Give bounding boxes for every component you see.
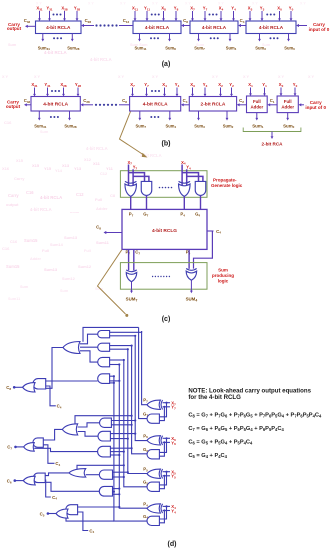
final OR gate of C5 <box>56 509 68 518</box>
box RCLA block B1 (bits 31-28) <box>31 97 80 112</box>
dots between input pairs of RCLA block B2 (bits 7-4) <box>151 90 160 92</box>
input X0 of RCLA block A4 (bits 3-0) <box>277 6 282 21</box>
svg-text:X13: X13 <box>62 163 70 168</box>
bus wire G6 (d) <box>132 346 147 454</box>
svg-text:X Y: X Y <box>278 75 285 79</box>
wire C4 between A3 and A4 <box>238 18 246 27</box>
svg-text:4-bit RCLA: 4-bit RCLA <box>90 57 112 62</box>
AND gate G4 (d) <box>147 516 159 525</box>
svg-text:X Y: X Y <box>212 75 219 79</box>
4-bit RCLA box RCLA block A2 (bits 11-8) <box>133 21 181 34</box>
bus wire P4 (d) <box>119 365 147 508</box>
svg-text:Generate logic: Generate logic <box>211 183 243 188</box>
input label X7 section (c) <box>127 160 132 166</box>
label G6 (d) <box>143 447 148 453</box>
wire C1 between FA1 and FA0 <box>267 98 277 106</box>
wire C8 into dots row (b) <box>119 98 130 105</box>
AND gate term1 of C6 cluster <box>99 470 112 479</box>
svg-text:(a): (a) <box>162 61 171 68</box>
input label Y7 section (c) <box>133 164 138 170</box>
label Y4 (d) <box>171 508 176 514</box>
svg-text:C7 = G6 + P6G5 + P6P5G4 + P6P5: C7 = G6 + P6G5 + P6P5G4 + P6P5P4C4 <box>188 426 284 432</box>
svg-text:input of 0: input of 0 <box>305 105 326 110</box>
wire C6 OR output to final AND <box>45 473 69 476</box>
wire C2 between 2-bit RCLA and FA1 <box>237 98 247 106</box>
svg-text:Sum11: Sum11 <box>8 297 20 301</box>
dots between sum outputs of RCLA block B2 (bits 7-4) <box>150 116 159 118</box>
output Sum8 of RCLA block A2 (bits 11-8) <box>165 34 176 52</box>
svg-text:X Y: X Y <box>300 2 306 6</box>
svg-text:Propagate-: Propagate- <box>213 178 237 183</box>
wires P7 G7 down to RCLG box <box>131 195 147 209</box>
svg-text:X11: X11 <box>93 161 101 166</box>
4-bit RCLA box RCLA block A1 (bits 31-28) <box>36 21 82 34</box>
svg-text:X16: X16 <box>2 166 10 171</box>
wire C8 between A2 and A3 <box>181 18 190 27</box>
svg-text:Full: Full <box>253 99 261 104</box>
OR gate of C8 cluster <box>63 342 80 354</box>
4-bit RCLA box RCLA block A4 (bits 3-0) <box>246 21 296 34</box>
C7 output label <box>7 445 23 451</box>
wires P4 G4 down to RCLG box <box>184 195 200 209</box>
svg-text:Sum: Sum <box>8 43 17 47</box>
svg-text:Sum: Sum <box>20 285 29 289</box>
svg-text:C12: C12 <box>76 192 84 197</box>
svg-text:X15: X15 <box>32 163 40 168</box>
wires X7 Y7 into P-G gates <box>129 165 149 188</box>
dots between sum outputs of RCLA block A3 (bits 7-4) <box>210 37 219 39</box>
input stub wires of C8 cluster ANDs <box>110 335 137 384</box>
svg-text:Adder: Adder <box>96 206 108 211</box>
svg-text:C8 = G7 + P7G6 + P7P6G5 + P7P6: C8 = G7 + P7G6 + P7P6G5 + P7P6P5G4 + P7P… <box>188 412 322 418</box>
svg-text:Adder: Adder <box>30 257 41 261</box>
svg-text:X Y: X Y <box>243 75 250 79</box>
wire G4 into C5 OR <box>66 517 114 521</box>
svg-text:4-bit RCLA: 4-bit RCLA <box>30 207 52 212</box>
svg-text:4-bit RCLA: 4-bit RCLA <box>86 146 108 151</box>
final OR gate of C6 <box>23 476 35 485</box>
wires P7 C7 from RCLG bottom to sum XOR <box>129 249 134 270</box>
svg-text:X Y: X Y <box>88 2 94 6</box>
C4 wire into C7 final AND <box>43 445 60 467</box>
X5 Y5 input wires (d) <box>159 471 170 489</box>
svg-text:Full: Full <box>42 248 49 253</box>
svg-text:Adder: Adder <box>281 105 294 110</box>
input label X4 section (c) <box>181 160 186 166</box>
AND gate term1 of C8 cluster <box>98 331 110 338</box>
svg-text:4-bit RCLA: 4-bit RCLA <box>145 25 170 30</box>
svg-text:Adder: Adder <box>251 105 264 110</box>
svg-text:X Y: X Y <box>118 75 125 79</box>
X4 Y4 input wires (d) <box>159 505 170 523</box>
SUM7 output arrow and label <box>126 282 138 303</box>
label Y6 (d) <box>171 440 176 446</box>
svg-text:Full: Full <box>84 249 91 253</box>
svg-text:X Y: X Y <box>252 2 258 6</box>
direct G5 wire to C6 OR <box>77 464 125 469</box>
box RCLA block B2 (bits 7-4) <box>130 97 181 112</box>
svg-text:X15: X15 <box>16 158 24 163</box>
C4 wire into C5 final AND <box>78 512 95 534</box>
OR gate of C7 cluster <box>62 424 77 435</box>
wires X4 Y4 into P-G gates <box>182 165 203 188</box>
AND gate G6 (d) <box>147 450 159 459</box>
AND gate term2 of C8 cluster <box>98 343 110 351</box>
green box Propagate-Generate logic <box>120 171 207 198</box>
svg-text:X Y: X Y <box>308 75 315 79</box>
XOR gate P4 in P-G logic <box>179 181 191 196</box>
XOR gate P4 (d) <box>147 504 163 513</box>
XOR gate P7 (d) <box>147 400 163 409</box>
input Y11 of RCLA block A2 (bits 11-8) <box>144 6 150 21</box>
output Sum0 of RCLA block A4 (bits 3-0) <box>284 34 295 52</box>
svg-text:C6 = G5 + P5G4 + P5P4C4: C6 = G5 + P5G4 + P5P4C4 <box>188 440 253 446</box>
AND gate term2 of C7 cluster <box>98 431 110 441</box>
svg-text:Sum13: Sum13 <box>64 235 78 240</box>
C6 output label <box>7 478 23 484</box>
final AND gate of C6 <box>33 473 45 483</box>
svg-text:logic: logic <box>218 279 229 284</box>
AND gate term3 of C7 cluster <box>98 446 111 457</box>
svg-text:input of 0: input of 0 <box>309 27 330 32</box>
input stub wires of C7 cluster ANDs <box>110 419 136 456</box>
C5 output label <box>40 512 56 518</box>
final AND gate of C7 <box>33 438 43 447</box>
input Y7 of RCLA block B2 (bits 7-4) <box>144 82 149 96</box>
input stub wires of C6 cluster ANDs <box>113 471 129 495</box>
AND gate G7 in P-G logic <box>141 181 152 195</box>
pin labels P7 G7 P4 G4 on RCLG top <box>129 211 201 217</box>
input X28 of RCLA block B1 (bits 31-28) <box>60 82 66 96</box>
input Y4 of RCLA block A3 (bits 7-4) <box>231 6 236 21</box>
label P5 (d) <box>143 467 148 473</box>
svg-text:4-bit RCLA: 4-bit RCLA <box>43 102 68 108</box>
input X4 of RCLA block B2 (bits 7-4) <box>162 82 167 96</box>
AND gate G7 (d) <box>147 414 159 423</box>
wire product AND3 to final C7 OR <box>34 448 97 451</box>
wires AND outputs to C7 OR <box>78 423 100 436</box>
wire P4 from RCLG bottom to sum XOR <box>188 249 190 268</box>
output Sum31 of RCLA block B1 (bits 31-28) <box>34 111 47 129</box>
output Sum2 of 2-bit RCLA block (bits 3-2) <box>223 111 234 129</box>
wire product AND2 to final C6 OR <box>35 482 99 491</box>
svg-text:(d): (d) <box>168 541 177 548</box>
svg-text:Y14: Y14 <box>55 168 63 173</box>
label P4 (d) <box>143 501 148 507</box>
NOTE heading <box>188 388 311 402</box>
svg-text:Carry: Carry <box>14 176 25 181</box>
input X2 of 2-bit RCLA block (bits 3-2) <box>218 82 223 96</box>
input Y0 of RCLA block A4 (bits 3-0) <box>289 6 294 21</box>
4-bit RCLG box <box>122 209 207 249</box>
dots between input pairs of RCLA block A3 (bits 7-4) <box>209 14 218 16</box>
final AND gate of C5 <box>66 505 78 515</box>
svg-text:for the 4-bit RCLG: for the 4-bit RCLG <box>188 394 241 401</box>
svg-text:C16: C16 <box>10 239 18 244</box>
svg-text:C12: C12 <box>100 171 108 176</box>
AND gate term4 of C8 cluster <box>98 374 110 384</box>
callout line from RCLA block B2 to section (c) <box>120 112 148 158</box>
wire C4 between B2 and 2-bit RCLA <box>181 98 189 106</box>
wire C28 into block A1 <box>81 18 94 27</box>
final AND gate of C8 <box>33 379 46 389</box>
svg-text:X Y: X Y <box>152 2 158 6</box>
Carry input of 0 row (a) <box>296 22 330 32</box>
bus wire G7 (d) <box>139 327 147 418</box>
svg-text:........: ........ <box>70 209 79 214</box>
svg-text:C16: C16 <box>2 246 10 251</box>
svg-text:Sum12: Sum12 <box>62 276 76 281</box>
input X7 of RCLA block A3 (bits 7-4) <box>190 6 195 21</box>
dots between sum outputs of RCLA block A2 (bits 11-8) <box>150 37 159 39</box>
final OR gate of C8 <box>23 383 35 392</box>
pin labels P7 C7 P4 on RCLG bottom <box>126 250 191 256</box>
label Y5 (d) <box>171 474 176 480</box>
box 2-bit RCLA block (bits 3-2) <box>189 97 236 112</box>
C4 input stub of RCLG <box>207 229 221 235</box>
svg-text:Full: Full <box>95 197 102 202</box>
bus wire G4 (d) <box>114 376 147 522</box>
input Y7 of RCLA block A3 (bits 7-4) <box>203 6 208 21</box>
AND gate term2 of C6 cluster <box>99 486 112 496</box>
C4 wire down to sum logic <box>194 231 213 269</box>
output Sum4 of RCLA block A3 (bits 7-4) <box>226 34 237 52</box>
svg-text:Sum13: Sum13 <box>44 267 58 272</box>
svg-text:X Y: X Y <box>120 2 126 6</box>
AND gate G5 (d) <box>147 482 159 491</box>
input Y2 of 2-bit RCLA block (bits 3-2) <box>229 82 234 96</box>
brace under full adders (2-bit RCA) <box>243 128 301 147</box>
svg-text:Sum: Sum <box>218 268 228 273</box>
sum XOR gate SUM7 <box>126 270 137 282</box>
input X11 of RCLA block A2 (bits 11-8) <box>132 6 138 21</box>
svg-text:2-bit RCA: 2-bit RCA <box>262 142 284 147</box>
direct G6 wire to C7 OR <box>75 415 133 425</box>
AND gate G4 in P-G logic <box>195 181 206 195</box>
svg-text:C5 = G4 + P4C4: C5 = G4 + P4C4 <box>188 453 227 459</box>
AND gate term3 of C8 cluster <box>98 357 110 366</box>
input Y31 of RCLA block B1 (bits 31-28) <box>44 82 50 96</box>
svg-text:(c): (c) <box>162 316 171 323</box>
SUM4 output arrow and label <box>186 280 198 302</box>
svg-text:4-bit RCLA: 4-bit RCLA <box>202 25 227 30</box>
label G7 (d) <box>143 412 148 418</box>
P7 top wire to AND1 (d) <box>110 331 142 332</box>
svg-text:output: output <box>6 202 19 207</box>
wire C7 OR output to final AND <box>43 429 62 440</box>
svg-text:Y13: Y13 <box>74 166 82 171</box>
label Y7 (d) <box>171 405 176 411</box>
output Sum31 of RCLA block A1 (bits 31-28) <box>38 34 51 52</box>
label Propagate-Generate logic <box>211 178 243 189</box>
svg-text:X Y: X Y <box>152 75 159 79</box>
Carry output text row (a) <box>7 22 22 31</box>
output Sum3 of RCLA block A4 (bits 3-0) <box>255 34 266 52</box>
dots between input pairs of RCLA block A2 (bits 11-8) <box>151 14 160 16</box>
dots between block A1 and A2 row (a) <box>95 24 117 26</box>
svg-text:Sum12: Sum12 <box>78 264 92 269</box>
input Y0 of Full Adder FA0 (bit 0) <box>293 82 298 96</box>
input X3 of 2-bit RCLA block (bits 3-2) <box>190 82 195 96</box>
green box Sum producing logic <box>120 263 207 290</box>
output Sum7 of RCLA block A3 (bits 7-4) <box>194 34 205 52</box>
input X7 of RCLA block B2 (bits 7-4) <box>130 82 135 96</box>
input Y28 of RCLA block B1 (bits 31-28) <box>75 82 81 96</box>
svg-text:C16: C16 <box>26 190 34 195</box>
svg-text:C16: C16 <box>4 120 12 125</box>
dots between input pairs of RCLA block A4 (bits 3-0) <box>266 14 275 16</box>
svg-text:Sum14: Sum14 <box>50 242 64 247</box>
input label Y4 section (c) <box>186 164 191 170</box>
input X0 of Full Adder FA0 (bit 0) <box>279 82 284 96</box>
input Y8 of RCLA block A2 (bits 11-8) <box>174 6 179 21</box>
X7 Y7 input wires (d) <box>159 402 170 421</box>
input Y28 of RCLA block A1 (bits 31-28) <box>74 6 80 21</box>
svg-text:C8: C8 <box>110 193 116 198</box>
dots between sum XOR gates <box>152 276 170 277</box>
svg-text:4-bit RCLG: 4-bit RCLG <box>152 228 177 234</box>
wire product AND4 to final C8 AND <box>46 380 98 382</box>
input Y31 of RCLA block A1 (bits 31-28) <box>46 6 52 21</box>
svg-text:producing: producing <box>212 273 234 278</box>
wire C12 into dots row (a) <box>119 18 133 26</box>
callout line from RCLG box to section (d) <box>98 250 129 317</box>
input X28 of RCLA block A1 (bits 31-28) <box>61 6 67 21</box>
G7 top loop wire (d) <box>83 327 139 341</box>
wire AND1 output to C6 OR <box>86 474 100 476</box>
bus wire P7 (d) <box>142 331 147 405</box>
output Sum3 of 2-bit RCLA block (bits 3-2) <box>194 111 205 129</box>
input Y4 of RCLA block B2 (bits 7-4) <box>175 82 180 96</box>
svg-text:4-bit RCLA: 4-bit RCLA <box>143 102 168 108</box>
label G5 (d) <box>143 480 148 486</box>
Carry output text row (b) <box>6 99 21 108</box>
X6 Y6 input wires (d) <box>159 437 170 456</box>
output Sum28 of RCLA block A1 (bits 31-28) <box>67 34 80 52</box>
dots between sum outputs of RCLA block B1 (bits 31-28) <box>50 116 59 118</box>
dots between sum outputs of RCLA block A4 (bits 3-0) <box>270 37 279 39</box>
svg-text:Y11: Y11 <box>106 166 114 171</box>
C8 output arrow of RCLG <box>96 225 122 235</box>
bus wire P6 (d) <box>135 336 147 441</box>
svg-text:X Y: X Y <box>2 75 9 79</box>
svg-text:(b): (b) <box>162 141 171 148</box>
C4 wire into C6 final AND <box>45 480 57 501</box>
svg-text:Full: Full <box>284 99 292 104</box>
label P6 (d) <box>143 433 148 439</box>
label X5 (d) <box>171 469 176 475</box>
wire P4 into C5 AND <box>78 506 121 508</box>
svg-text:Sum15: Sum15 <box>6 264 20 269</box>
label P7 (d) <box>143 398 148 404</box>
input X31 of RCLA block A1 (bits 31-28) <box>36 6 42 21</box>
input X4 of RCLA block A3 (bits 7-4) <box>219 6 224 21</box>
input X8 of RCLA block A2 (bits 11-8) <box>161 6 166 21</box>
output Sum28 of RCLA block B1 (bits 31-28) <box>64 111 77 129</box>
dots between sum outputs of RCLA block A1 (bits 31-28) <box>53 37 62 39</box>
label X6 (d) <box>171 436 176 442</box>
output Sum7 of RCLA block B2 (bits 7-4) <box>136 111 147 129</box>
output Sum0 of Full Adder FA0 (bit 0) <box>283 113 295 130</box>
input X1 of Full Adder FA1 (bit 1) <box>248 82 253 96</box>
svg-text:X Y: X Y <box>34 75 41 79</box>
svg-text:Y15: Y15 <box>44 166 52 171</box>
svg-text:4-bit RCLA: 4-bit RCLA <box>46 25 71 30</box>
svg-text:Sum15: Sum15 <box>24 238 38 243</box>
svg-text:output: output <box>7 26 22 31</box>
bus wire P5 (d) <box>128 350 147 474</box>
final OR gate of C7 <box>24 443 35 452</box>
dots between P-G gate pairs <box>159 187 173 189</box>
output Sum11 of RCLA block A2 (bits 11-8) <box>134 34 146 52</box>
output Sum4 of RCLA block B2 (bits 7-4) <box>166 111 177 129</box>
bus wire G5 (d) <box>124 360 147 487</box>
input X3 of RCLA block A4 (bits 3-0) <box>248 6 253 21</box>
svg-text:Sum11: Sum11 <box>96 240 110 245</box>
dots between B1 and B2 row (b) <box>95 104 117 106</box>
wire C28 into B1 row (b) <box>81 98 94 106</box>
svg-text:Carry: Carry <box>8 193 19 198</box>
XOR gate P7 in P-G logic <box>125 181 137 196</box>
carry output arrow C32 row (b) <box>24 98 31 106</box>
wire C8 OR output to final OR <box>35 348 63 389</box>
label Sum producing logic <box>212 268 234 284</box>
4-bit RCLA box RCLA block A3 (bits 7-4) <box>190 21 238 34</box>
Carry input of 0 row (b) <box>299 100 327 110</box>
C8 output label <box>6 385 22 391</box>
input Y3 of RCLA block A4 (bits 3-0) <box>260 6 265 21</box>
C4 wire into C8 final AND <box>46 386 62 410</box>
svg-text:4-bit RCLA: 4-bit RCLA <box>40 195 62 200</box>
carry output arrow C32 row (a) <box>24 18 36 28</box>
svg-text:Sum: Sum <box>40 130 49 134</box>
output Sum1 of Full Adder FA1 (bit 1) <box>252 113 264 130</box>
svg-text:X12: X12 <box>84 157 92 162</box>
XOR gate P5 (d) <box>147 469 163 478</box>
AND gate term1 of C7 cluster <box>100 418 112 427</box>
svg-text:2-bit RCLA: 2-bit RCLA <box>201 102 226 108</box>
input X31 of RCLA block B1 (bits 31-28) <box>31 82 37 96</box>
box Full Adder FA0 (bit 0) <box>277 96 298 113</box>
input Y3 of 2-bit RCLA block (bits 3-2) <box>203 82 208 96</box>
label X4 (d) <box>171 504 176 510</box>
svg-text:output: output <box>6 104 21 109</box>
wires AND outputs to C8 OR <box>80 334 98 362</box>
sum XOR gate SUM4 <box>186 269 197 281</box>
input Y1 of Full Adder FA1 (bit 1) <box>262 82 267 96</box>
svg-text:4-bit RCLA: 4-bit RCLA <box>259 25 284 30</box>
dots between input pairs of RCLA block B1 (bits 31-28) <box>51 90 60 92</box>
XOR gate P6 (d) <box>147 436 163 445</box>
label G4 (d) <box>143 514 148 520</box>
box Full Adder FA1 (bit 1) <box>247 96 268 113</box>
OR gate of C6 cluster <box>69 469 86 478</box>
svg-text:Sum: Sum <box>60 289 69 293</box>
dots between input pairs of RCLA block A1 (bits 31-28) <box>53 14 62 16</box>
label X7 (d) <box>171 400 176 406</box>
